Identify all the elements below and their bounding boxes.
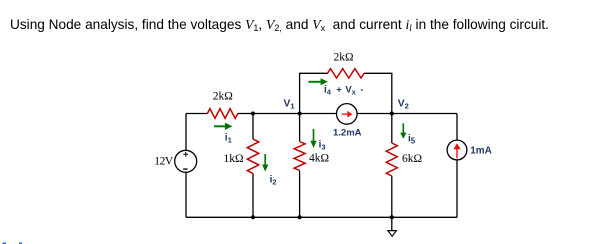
svg-text:i1: i1 (225, 133, 232, 145)
svg-text:i3: i3 (319, 139, 326, 151)
svg-text:1kΩ: 1kΩ (224, 153, 244, 165)
svg-text:V2: V2 (398, 99, 409, 111)
svg-text:2kΩ: 2kΩ (334, 52, 354, 64)
svg-text:1.2mA: 1.2mA (333, 127, 362, 138)
svg-text:i5: i5 (408, 133, 416, 145)
svg-text:-: - (360, 85, 363, 96)
svg-text:6kΩ: 6kΩ (402, 153, 422, 165)
svg-text:i4: i4 (324, 85, 332, 97)
svg-text:2kΩ: 2kΩ (213, 91, 233, 103)
svg-text:Vx: Vx (345, 85, 355, 97)
svg-text:V1: V1 (284, 99, 295, 111)
svg-text:1mA: 1mA (470, 146, 492, 157)
svg-text:4kΩ: 4kΩ (309, 153, 329, 165)
svg-text:i2: i2 (270, 175, 277, 187)
svg-text:12V: 12V (154, 156, 174, 168)
svg-text:+: + (336, 85, 342, 96)
